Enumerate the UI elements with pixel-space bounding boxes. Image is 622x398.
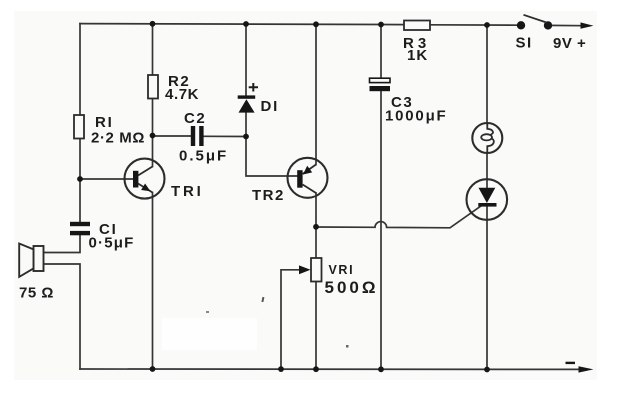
svg-text:TRI: TRI	[171, 183, 204, 200]
wire TR1 collector	[152, 136, 154, 167]
transistor TR1	[125, 159, 204, 200]
svg-text:VRI: VRI	[329, 263, 355, 277]
top rail arrowhead	[581, 22, 594, 28]
wire node C to TR2 base	[246, 137, 297, 177]
wire VR1 to ground	[315, 282, 317, 370]
wire TR1 emitter to ground	[152, 193, 154, 370]
resistor R1	[74, 114, 145, 147]
node ground VR1	[313, 366, 319, 372]
wire node D to SCR gate with hop	[316, 206, 481, 228]
node D TR2 VR1 gate	[313, 224, 319, 230]
bottom rail arrowhead	[579, 366, 594, 372]
svg-text:RI: RI	[95, 114, 114, 131]
node ground C3	[378, 366, 384, 372]
wire TR1 base	[80, 178, 133, 180]
node B R2 C2 TR1	[150, 133, 156, 139]
svg-text:75 Ω: 75 Ω	[19, 285, 54, 302]
wire top rail to D1 cathode	[245, 24, 247, 96]
diode D1	[238, 83, 279, 115]
wire top rail left segment	[80, 24, 404, 25]
node top C3	[378, 22, 384, 28]
wire top rail to C3	[380, 25, 382, 79]
switch S1	[516, 15, 553, 52]
potentiometer VR1	[299, 258, 379, 297]
svg-text:1K: 1K	[407, 47, 428, 64]
node C D1 C2 TR2	[243, 134, 249, 140]
node top TR2	[313, 21, 319, 27]
svg-text:4.7K: 4.7K	[165, 86, 199, 103]
wire TR2 collector to node D	[315, 193, 317, 227]
svg-text:SI: SI	[516, 35, 533, 52]
wire C2 to node C	[204, 135, 247, 137]
node top D1	[243, 21, 249, 27]
svg-text:0.5μF: 0.5μF	[179, 148, 228, 165]
svg-text:9V +: 9V +	[553, 35, 586, 52]
wire top rail to lamp	[486, 25, 488, 124]
node top R2	[150, 21, 156, 27]
wire C1 to speaker top	[43, 235, 80, 253]
svg-text:2·2 MΩ: 2·2 MΩ	[91, 130, 145, 147]
speaker LS1	[19, 244, 54, 302]
node R1 base	[77, 176, 83, 182]
capacitor C2	[179, 110, 228, 165]
node ground SCR	[484, 367, 490, 373]
svg-text:DI: DI	[261, 98, 280, 115]
wire D1 anode to node C	[245, 112, 247, 137]
transistor TR2	[252, 158, 328, 204]
resistor R2	[148, 73, 199, 103]
wire top rail right segment	[430, 24, 521, 26]
node ground wiper	[278, 366, 284, 372]
capacitor C3	[370, 78, 448, 124]
wire left vertical upper	[79, 24, 81, 115]
label minus terminal	[566, 362, 576, 364]
wire R2 to node B	[152, 99, 154, 136]
wire VR1 wiper to ground	[281, 270, 303, 369]
wire node B to C2	[153, 135, 192, 137]
capacitor C1	[70, 221, 135, 252]
node ground TR1	[150, 366, 156, 372]
lamp	[472, 123, 502, 153]
svg-text:TR2: TR2	[252, 187, 285, 204]
svg-text:1000μF: 1000μF	[385, 108, 448, 125]
wire speaker bottom to ground rail	[43, 264, 80, 369]
wire node D to VR1	[315, 227, 317, 258]
svg-text:0·5μF: 0·5μF	[89, 235, 135, 252]
wire R1 to C1	[79, 139, 81, 223]
svg-text:500Ω: 500Ω	[325, 278, 379, 297]
wire bottom rail	[80, 368, 581, 370]
svg-text:C2: C2	[184, 110, 206, 127]
wire C3 to ground	[380, 91, 382, 369]
wire TR2 emitter to top rail	[315, 24, 317, 164]
wire top rail to R2	[152, 24, 154, 75]
resistor R3	[403, 21, 430, 65]
wire top rail arrow segment	[548, 24, 583, 26]
wire SCR cathode to ground	[486, 207, 488, 370]
node top lamp	[484, 22, 490, 28]
thyristor SCR	[467, 179, 508, 220]
wire lamp to SCR anode	[486, 153, 488, 190]
